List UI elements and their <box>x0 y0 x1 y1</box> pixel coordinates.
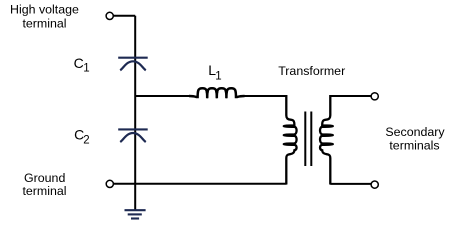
svg-text:2: 2 <box>83 135 89 147</box>
svg-text:terminals: terminals <box>389 138 439 152</box>
inductor L1 junction wedges <box>205 89 228 99</box>
svg-text:1: 1 <box>215 71 221 83</box>
svg-text:Secondary: Secondary <box>385 125 445 139</box>
inductor L1 <box>189 88 245 98</box>
svg-text:terminal: terminal <box>22 17 66 31</box>
secondary bottom terminal circle <box>371 181 378 188</box>
ground terminal circle <box>106 180 113 187</box>
capacitor C2 top plate <box>118 128 148 130</box>
svg-text:Ground: Ground <box>24 171 65 185</box>
label: L1 <box>208 62 221 82</box>
capacitor C1 top plate <box>118 57 148 59</box>
label: Ground terminal <box>22 171 66 198</box>
label: High voltage terminal <box>10 3 79 31</box>
wire: top stub from HV terminal to main vertical <box>113 15 135 17</box>
transformer core lines <box>305 112 311 167</box>
svg-text:terminal: terminal <box>22 184 66 198</box>
capacitor C2 curved plate <box>120 133 146 142</box>
wire: secondary bottom horizontal to terminal <box>330 183 371 185</box>
wire: middle horizontal from main vertical to inductor <box>135 95 192 97</box>
label: C2 <box>74 126 90 146</box>
ground symbol <box>125 210 146 218</box>
wire: middle horizontal from inductor to transformer primary corner <box>242 95 287 97</box>
high voltage terminal circle <box>106 12 113 19</box>
transformer primary winding (left coil) <box>284 95 297 185</box>
wire: main left vertical (through C1 and C2 down to ground) <box>134 16 136 210</box>
svg-text:Transformer: Transformer <box>278 64 345 78</box>
capacitor C1 curved plate <box>120 61 146 70</box>
wire: secondary top horizontal to terminal <box>330 95 371 97</box>
secondary top terminal circle <box>371 93 378 100</box>
svg-text:High voltage: High voltage <box>10 3 79 17</box>
wire: bottom horizontal from ground terminal to transformer primary <box>114 183 287 185</box>
svg-text:1: 1 <box>83 63 89 75</box>
label: Secondary terminals <box>385 125 445 152</box>
transformer secondary winding (right coil, mirror of left) <box>320 95 333 185</box>
label: C1 <box>74 55 90 74</box>
